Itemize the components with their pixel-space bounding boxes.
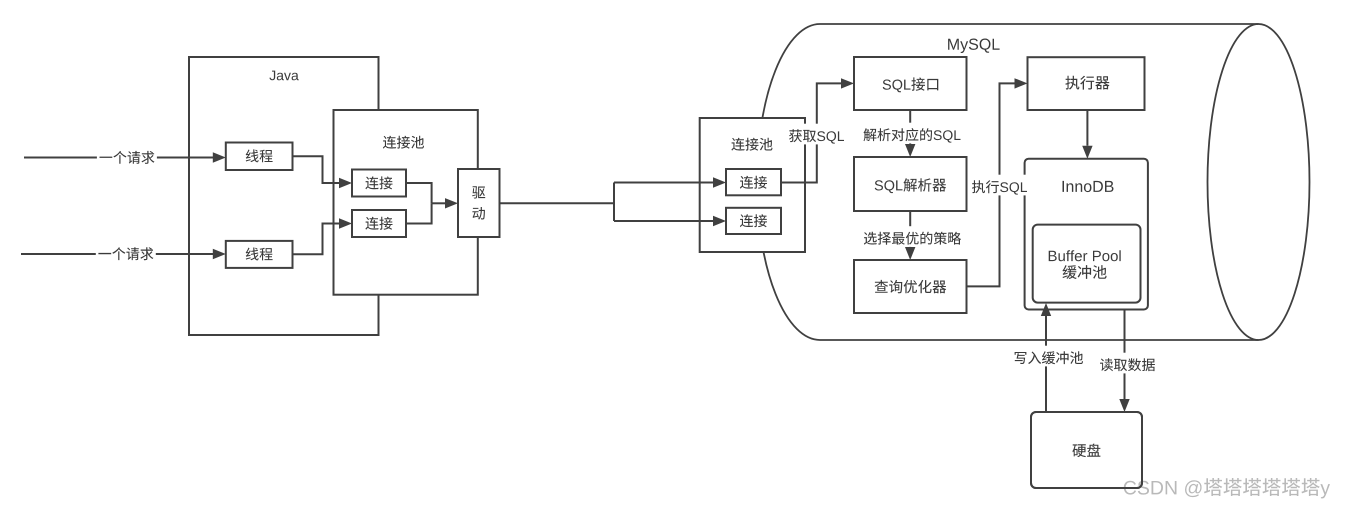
label buffer pool cn (缓冲池) — [1063, 265, 1107, 279]
arrowhead into disk top — [1119, 399, 1129, 412]
box thread 1 (线程) — [226, 143, 293, 171]
arrowhead request 1 into thread 1 — [213, 152, 226, 162]
label MySQL title — [948, 39, 1000, 54]
box connection 2 (连接) — [352, 210, 406, 237]
label choose best strategy (选择最优的策略) — [861, 226, 963, 247]
box connection 1 (连接) — [352, 170, 406, 197]
wire split vertical — [613, 183, 615, 222]
box Java container — [189, 57, 379, 335]
cylinder MySQL left cap arc — [757, 24, 820, 340]
box query optimizer (查询优化器) — [854, 260, 967, 313]
wire SQL parser down to query optimizer — [909, 211, 911, 247]
box thread 2 (线程) — [226, 241, 293, 268]
arrowhead into pool2 connection 2 — [713, 216, 726, 226]
label Buffer Pool — [1049, 250, 1121, 261]
label thread 1 (线程) — [246, 149, 273, 162]
arrowhead into pool2 connection 1 — [713, 177, 726, 187]
wire request 1 line — [24, 157, 213, 159]
label driver line1 (驱) — [472, 186, 485, 198]
cylinder MySQL body bottom line — [820, 339, 1259, 341]
label write to buffer (写入缓冲池) — [1012, 346, 1086, 367]
cylinder MySQL right end ellipse — [1208, 24, 1310, 340]
label get SQL (获取SQL) — [787, 124, 847, 145]
label SQL parser (SQL解析器) — [875, 178, 946, 193]
box Buffer Pool — [1033, 225, 1141, 303]
label thread 2 (线程) — [246, 248, 273, 261]
wire disk up to Buffer Pool (write) — [1045, 316, 1047, 412]
label execute SQL (执行SQL) — [970, 175, 1030, 196]
arrowhead into connection 1 — [339, 178, 352, 188]
box pool2 connection 1 (连接) — [726, 169, 781, 195]
label disk (硬盘) — [1072, 444, 1100, 458]
label read data (读取数据) — [1098, 353, 1158, 374]
box InnoDB engine — [1025, 159, 1148, 310]
wire driver to split — [500, 202, 615, 204]
arrowhead into SQL interface — [841, 78, 854, 88]
watermark CSDN — [1124, 478, 1330, 498]
wire InnoDB down to disk (read) — [1124, 310, 1126, 400]
label pool1 title (连接池) — [383, 136, 424, 149]
wire request 2 line — [21, 253, 213, 255]
arrowhead into InnoDB — [1082, 146, 1092, 159]
wire executor down to InnoDB — [1086, 110, 1088, 146]
box disk (硬盘) — [1031, 412, 1142, 488]
label pool2 connection 1 (连接) — [740, 176, 767, 189]
wire connection1 to join — [406, 183, 432, 203]
wire thread1 to connection1 — [293, 156, 340, 183]
box driver (驱动) — [458, 169, 500, 237]
wire connection2 to join — [406, 203, 432, 223]
wire join to driver — [432, 202, 445, 204]
box SQL parser (SQL解析器) — [854, 157, 967, 211]
box connection-pool 2 (连接池) — [700, 118, 805, 252]
label pool2 title (连接池) — [731, 138, 772, 151]
label executor (执行器) — [1065, 76, 1109, 90]
arrowhead into query optimizer — [905, 247, 915, 260]
wire pool2-connection1 up to SQL interface — [781, 83, 841, 182]
label request 1 (一个请求) — [97, 145, 157, 166]
box executor (执行器) — [1028, 57, 1145, 110]
arrowhead into executor — [1015, 78, 1028, 88]
label connection 2 (连接) — [365, 217, 392, 230]
arrowhead request 2 into thread 2 — [213, 249, 226, 259]
label query optimizer (查询优化器) — [875, 280, 947, 293]
wire query optimizer to executor — [967, 83, 1015, 286]
label Java — [269, 71, 298, 81]
wire split to pool2 connection1 — [614, 182, 713, 184]
label pool2 connection 2 (连接) — [740, 214, 767, 227]
box connection-pool 1 (连接池) — [334, 110, 478, 295]
arrowhead into connection 2 — [339, 218, 352, 228]
label InnoDB — [1063, 181, 1114, 192]
wire SQL interface down to SQL parser — [909, 110, 911, 145]
wire split to pool2 connection2 — [614, 220, 713, 222]
label connection 1 (连接) — [365, 176, 392, 189]
box SQL interface (SQL接口) — [854, 57, 967, 110]
label request 2 (一个请求) — [96, 242, 156, 263]
arrowhead into driver — [445, 198, 458, 208]
label parse SQL (解析对应的SQL) — [861, 123, 963, 144]
arrowhead into SQL parser — [905, 144, 915, 157]
label driver line2 (动) — [472, 207, 485, 220]
wire thread2 to connection2 — [293, 224, 340, 255]
box disk (硬盘) border redraw — [1031, 412, 1142, 488]
cylinder MySQL body top line — [820, 23, 1259, 25]
label SQL interface (SQL接口) — [883, 77, 939, 92]
arrowhead into Buffer Pool bottom — [1041, 303, 1051, 316]
box pool2 connection 2 (连接) — [726, 208, 781, 234]
